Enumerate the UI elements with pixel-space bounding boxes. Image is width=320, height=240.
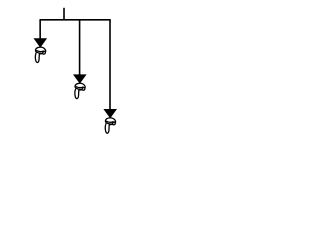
horizontal bus wire	[40, 19, 111, 21]
arrow + screw icon 2	[73, 74, 87, 98]
input stub wire	[63, 8, 65, 20]
arrow + screw icon 3	[103, 109, 117, 133]
drop wire 2	[79, 20, 81, 76]
arrow + screw icon 1	[34, 38, 48, 62]
drop wire 3	[109, 20, 111, 111]
drop wire 1	[39, 20, 41, 40]
